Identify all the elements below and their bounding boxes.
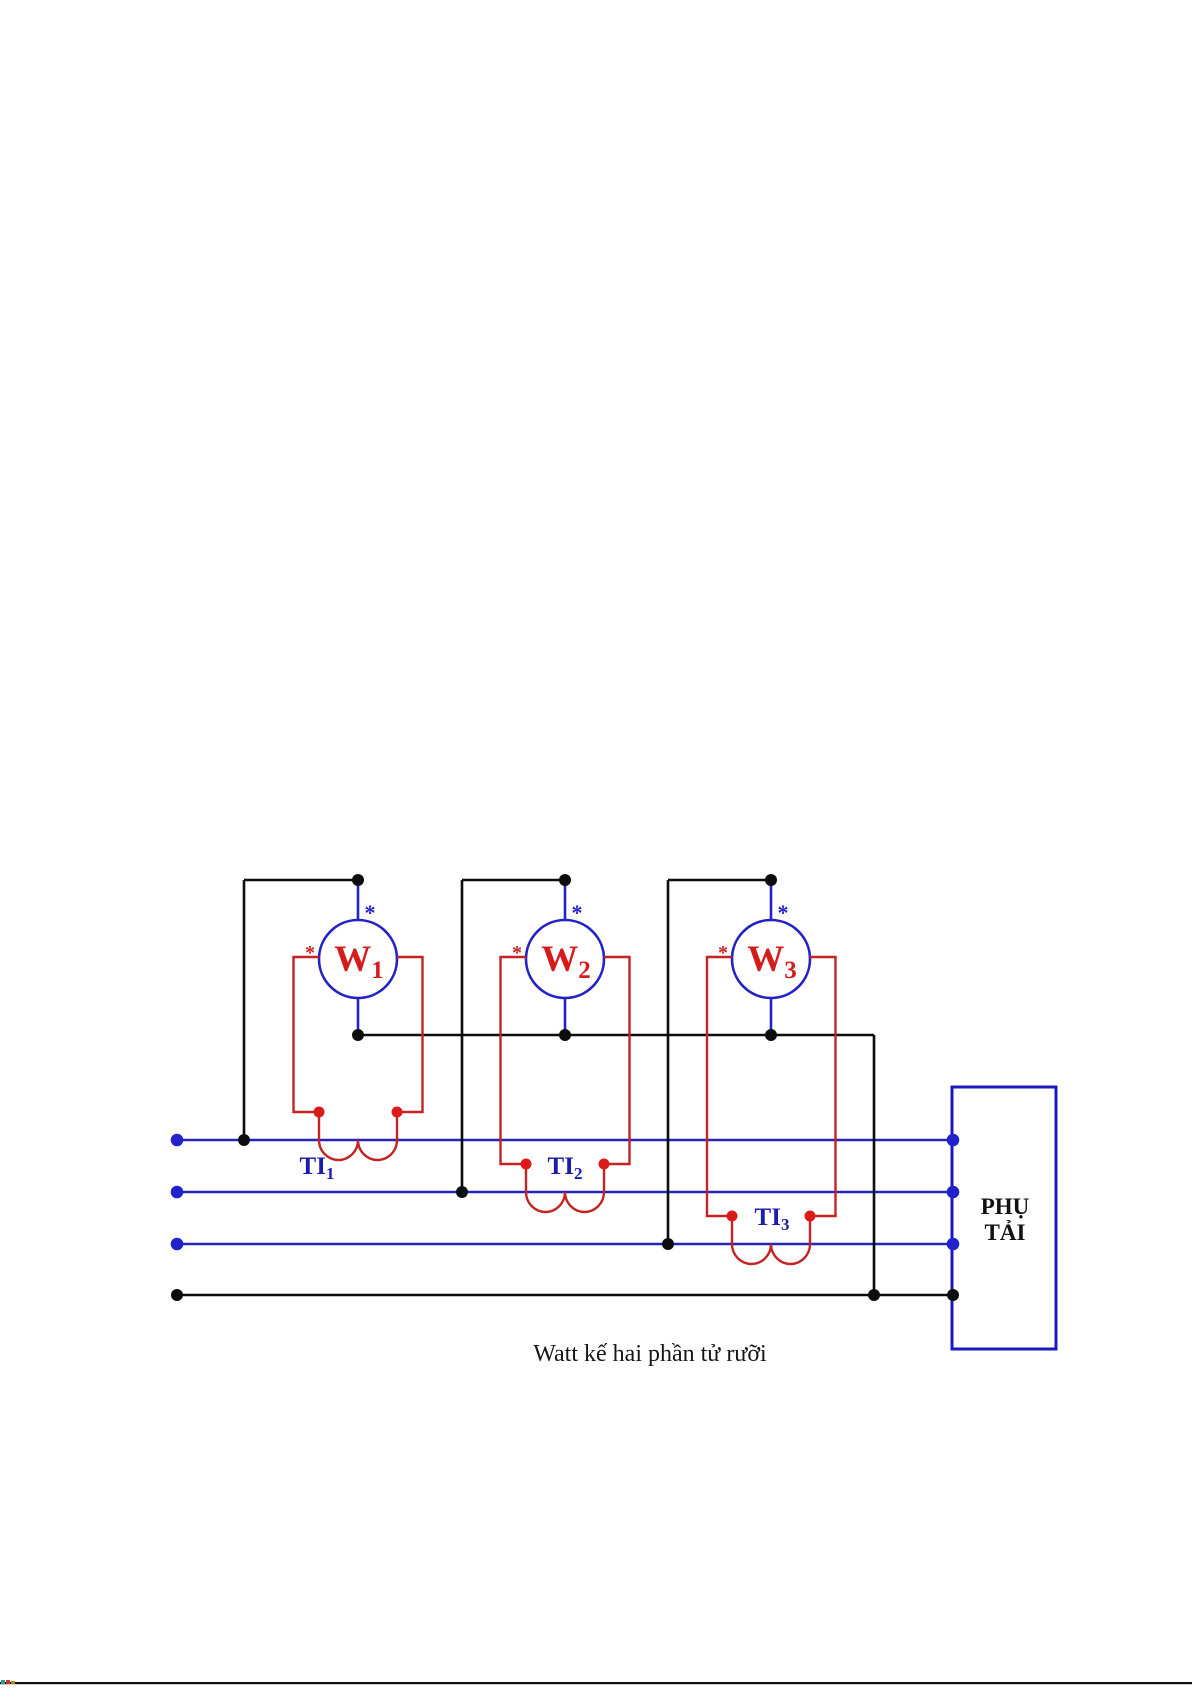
svg-text:*: *: [778, 900, 789, 925]
svg-text:*: *: [512, 942, 522, 964]
svg-text:*: *: [718, 942, 728, 964]
svg-text:*: *: [572, 900, 583, 925]
svg-text:TẢI: TẢI: [985, 1220, 1026, 1245]
svg-text:*: *: [365, 900, 376, 925]
svg-text:*: *: [305, 942, 315, 964]
svg-text:PHỤ: PHỤ: [981, 1194, 1030, 1219]
svg-text:Watt kế hai phần tử rưỡi: Watt kế hai phần tử rưỡi: [533, 1341, 767, 1367]
